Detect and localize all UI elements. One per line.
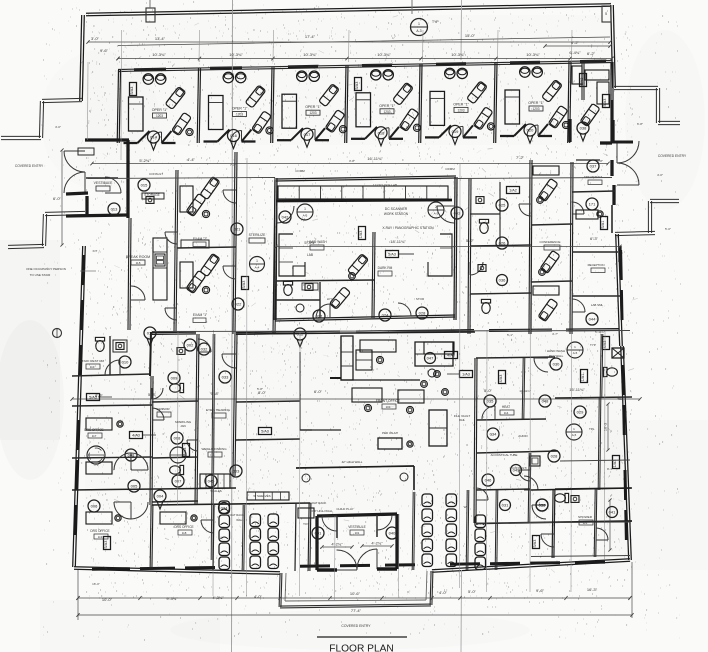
box tag 1/A1 fo xyxy=(581,370,588,383)
front office counters xyxy=(300,352,312,430)
box tag 5/A3 op4 xyxy=(355,78,362,91)
room tag 018 xyxy=(375,127,387,146)
east entry doors xyxy=(617,141,639,163)
operatory partition wall 2 xyxy=(197,69,198,144)
core h wall xyxy=(276,280,374,281)
room tag 042 xyxy=(279,211,291,223)
east wing small fixtures xyxy=(476,197,484,204)
east canopy lower step h2 xyxy=(615,235,655,236)
big door arcs sw2 xyxy=(131,502,148,519)
big door arcs sw xyxy=(114,453,131,470)
room tag 035 xyxy=(484,395,496,407)
west wing wall v1 xyxy=(128,218,129,330)
se sink xyxy=(571,496,579,503)
east heavy segs xyxy=(610,160,613,176)
east wing cab xyxy=(533,166,559,175)
room tag 009 xyxy=(168,372,180,384)
corridor wall s2 xyxy=(195,334,197,505)
biz mid room walls xyxy=(476,489,530,490)
bottom dim string xyxy=(78,597,630,599)
core east wall xyxy=(454,177,455,320)
east wing extra wall xyxy=(470,293,531,294)
se toilet xyxy=(555,493,569,502)
core center chair xyxy=(347,254,368,277)
room tag 029 xyxy=(574,406,586,418)
staff RR door xyxy=(105,360,120,375)
room tag 028c xyxy=(416,307,428,319)
room tag 014 xyxy=(148,131,160,150)
front office L counter xyxy=(415,342,453,366)
bottom overall dim xyxy=(78,614,632,616)
sw offices wall3 xyxy=(152,503,310,505)
break room door xyxy=(131,286,145,300)
break room sink xyxy=(155,254,165,266)
room tag 034 xyxy=(487,428,499,440)
operatory partition wall 1 xyxy=(117,70,118,143)
room tag 031 xyxy=(500,500,511,511)
box tag 4/A3 ne2 xyxy=(603,337,610,350)
operatory room 020 furniture xyxy=(500,67,570,136)
south wing north wall segs xyxy=(152,333,196,336)
sw offices north wall xyxy=(72,405,152,406)
east wing chairs c xyxy=(538,298,558,321)
scales shelves xyxy=(200,474,230,488)
room tag 004 xyxy=(154,490,166,502)
east wing wall v1 xyxy=(468,178,469,334)
room tag 016 xyxy=(228,130,240,149)
room 015 fixtures xyxy=(78,148,94,155)
scan blotches xyxy=(0,320,64,480)
room 015 sink xyxy=(146,197,154,204)
east wing chairs b xyxy=(540,250,560,273)
bottom dim ticks xyxy=(76,596,79,600)
east exterior wall lower xyxy=(621,346,629,560)
room tag 048 xyxy=(539,395,551,407)
core wc wall xyxy=(276,299,320,301)
room tag 030 xyxy=(550,358,562,370)
south exterior wall east run xyxy=(432,561,630,572)
title rule xyxy=(317,636,407,638)
room tag 008 xyxy=(125,449,137,461)
room tag 024 xyxy=(379,309,391,321)
west vestibule mid wall xyxy=(86,177,118,179)
room tag 005 xyxy=(128,480,140,492)
se dim col xyxy=(609,500,611,550)
biz door arcs xyxy=(534,358,548,372)
south window sills xyxy=(92,567,130,571)
top tick small xyxy=(411,0,413,14)
front office tag xyxy=(425,353,436,364)
se room dims xyxy=(607,404,609,450)
north exterior wall xyxy=(86,6,611,16)
east mid room fill xyxy=(576,210,598,219)
operatory partition wall 6 xyxy=(494,63,495,143)
room tag 010 xyxy=(119,356,131,368)
room tag 037 xyxy=(587,160,599,172)
core door west xyxy=(277,206,294,223)
west canopy lower step h2 xyxy=(8,248,44,249)
room 038 cabinets xyxy=(585,70,609,80)
room tag 003 xyxy=(230,465,242,477)
top dim string 2 xyxy=(118,58,612,60)
biz extra arcs xyxy=(476,488,488,500)
box tag 5/A3 core xyxy=(386,251,399,258)
room tag 028 xyxy=(548,450,560,462)
core door east xyxy=(437,206,454,223)
front desk rail xyxy=(330,377,341,379)
toy box xyxy=(298,508,314,518)
sw offices mid wall xyxy=(72,457,152,458)
waiting west wall xyxy=(242,505,243,570)
scan crease left xyxy=(232,0,233,652)
box tag 1/A3 se xyxy=(613,456,620,469)
room tag 026 xyxy=(496,237,508,249)
south porch inner lines xyxy=(285,573,286,601)
room tag 049 xyxy=(511,465,522,476)
left small dims xyxy=(61,150,63,245)
room tag 011 xyxy=(144,327,156,339)
marker circle a5 r1 xyxy=(567,342,583,358)
box tag 5/A1 e xyxy=(601,217,608,230)
core lower chair xyxy=(329,287,350,310)
marker circle corridor xyxy=(250,257,265,272)
fan circle 2 xyxy=(170,447,186,463)
box tag 1/A3 fo xyxy=(460,371,473,378)
room tag 043 xyxy=(451,207,463,219)
exam 021 chair xyxy=(186,193,206,216)
corridor wall s4 xyxy=(233,334,235,476)
west canopy upper step h xyxy=(42,102,82,103)
east canopy upper step h2 xyxy=(658,124,680,126)
core north wall xyxy=(276,178,456,181)
top dim ticks 2 xyxy=(116,57,119,61)
operatory partition wall 3 xyxy=(271,67,272,143)
west canopy upper step v xyxy=(39,101,40,138)
sw desk fill xyxy=(86,418,112,430)
biz office walls xyxy=(474,358,475,523)
room tag 046 xyxy=(482,474,494,486)
sw offices wall2 xyxy=(72,488,236,490)
operatory east closure wall xyxy=(610,62,612,143)
se tag 041 xyxy=(607,507,618,518)
north wall face xyxy=(118,63,612,72)
room tag 021 xyxy=(231,223,243,235)
witness lines vertical xyxy=(120,30,123,160)
east exterior wall upper xyxy=(611,5,613,88)
se wall v2 xyxy=(594,489,595,557)
top small tag right xyxy=(602,6,611,22)
corridor wall west xyxy=(233,152,235,334)
north window sills xyxy=(134,68,166,72)
west exterior wall upper xyxy=(80,15,82,101)
scan crease right xyxy=(460,0,463,60)
bottom left vert ext xyxy=(77,570,79,620)
east entry jambs xyxy=(611,120,614,141)
vestibule east wall xyxy=(395,514,398,569)
box tag 4/A3 fo2 xyxy=(445,352,458,359)
vestibule double doors xyxy=(337,550,357,570)
south porch east wall xyxy=(430,571,431,605)
box tag 5/A3 op1 xyxy=(130,83,137,96)
sw wall v bottom2 xyxy=(213,505,214,570)
eye hearing walls xyxy=(236,401,300,402)
se tag 039 xyxy=(536,499,548,511)
east wing chairs a xyxy=(538,178,558,201)
scan tone xyxy=(0,240,60,440)
right C counter xyxy=(428,234,452,276)
twelve oclock counter xyxy=(278,186,448,199)
east rooms mid walls xyxy=(572,251,618,253)
small wc a xyxy=(170,383,184,392)
sw desk fill2 xyxy=(86,512,112,524)
room tag 020 xyxy=(524,124,536,143)
east wall step box xyxy=(612,348,624,358)
se x-ray walls xyxy=(555,397,632,398)
room tag 008b xyxy=(171,432,183,444)
operatory partition wall 5 xyxy=(419,64,420,143)
operatory room 018 furniture xyxy=(351,70,421,139)
core south wall xyxy=(275,317,455,321)
ne room fixtures2 xyxy=(580,103,600,126)
room tag 044 xyxy=(586,313,598,325)
east room doors xyxy=(572,202,584,214)
box tag 5/A3 op6 xyxy=(580,74,587,87)
top small tag left xyxy=(146,8,155,22)
vestibule inner door xyxy=(105,177,121,193)
staff RR walls xyxy=(72,374,151,376)
west canopy lower step v xyxy=(42,214,43,246)
room tag 025 xyxy=(496,199,508,211)
core west wall xyxy=(274,180,275,320)
east wing wall v2 xyxy=(529,160,530,334)
room tag 171 xyxy=(586,198,598,210)
box tag 5/A3 sw xyxy=(87,394,100,401)
west vestibule south wall xyxy=(66,215,128,216)
interior dim string 2 xyxy=(276,246,620,248)
box tag 5/A3 west corr xyxy=(242,277,249,290)
box tag 5/A3 sw2 xyxy=(259,428,272,435)
east exterior wall mid xyxy=(616,234,620,346)
box tag 1/A2 xyxy=(507,187,520,194)
box tag 4/A3 sw xyxy=(130,432,143,439)
waiting plant xyxy=(302,474,310,482)
se boxtag xyxy=(533,536,540,549)
west window sills xyxy=(81,255,85,285)
room tag 045 xyxy=(205,475,217,487)
box tag 5/A3 sw3 xyxy=(104,537,111,550)
exam 022 chair2 xyxy=(200,253,220,276)
small wc b xyxy=(170,465,184,474)
front office chairs xyxy=(365,405,372,412)
south exterior wall west run xyxy=(74,569,280,574)
vestibule funnels xyxy=(336,516,338,538)
waiting chairs east xyxy=(422,494,433,507)
witness lines horizontal xyxy=(152,331,630,332)
operatory room 019 furniture xyxy=(425,68,495,137)
front office desks xyxy=(352,388,382,402)
marker circle a5 r2 xyxy=(566,424,582,440)
corridor wall west2 xyxy=(273,178,275,334)
vestibule door arcs in xyxy=(322,516,337,531)
se door arc xyxy=(541,534,554,547)
operatory room 017 furniture xyxy=(277,71,347,140)
room 013 tag xyxy=(108,203,120,215)
sw office door xyxy=(201,520,214,533)
east canopy lower step h xyxy=(650,202,679,204)
left C counter xyxy=(279,234,305,276)
top dim string 1 xyxy=(88,41,610,43)
room 038 tag xyxy=(577,122,589,134)
waiting chairs west xyxy=(219,501,230,514)
room tag 032 xyxy=(198,343,210,355)
vestibule dims xyxy=(322,546,352,548)
box tag 1/A3 core xyxy=(359,227,366,240)
west wing wall v2 xyxy=(174,170,176,332)
west extra arcs xyxy=(165,232,177,244)
corridor wall s3 xyxy=(211,334,213,560)
room tag 033 xyxy=(219,371,231,383)
waiting north low wall xyxy=(296,466,414,468)
small door arcs sw xyxy=(152,408,164,420)
room 038 walls xyxy=(568,119,571,142)
west corridor doors xyxy=(223,190,236,203)
left wall circle marker xyxy=(53,329,62,338)
east corridor wall xyxy=(570,162,571,334)
room tag 012 xyxy=(294,328,306,340)
marker circle core e xyxy=(428,202,444,218)
box tag 4/A3 fo xyxy=(499,371,506,384)
exam 021 chair2 xyxy=(200,176,220,199)
east canopy lower step v xyxy=(647,201,649,233)
room tag 007 xyxy=(172,475,184,487)
front office north wall xyxy=(236,332,475,334)
room tag 017 xyxy=(301,128,313,147)
operatory room 014 furniture xyxy=(124,74,194,143)
front office stools2 xyxy=(421,381,428,388)
room tag 006 xyxy=(88,500,100,512)
marker circle core w xyxy=(297,204,313,220)
ped vault box xyxy=(378,438,402,449)
core mid partition xyxy=(372,232,373,318)
operatory room 016 furniture xyxy=(204,72,274,141)
vestibule door jambs xyxy=(317,568,337,572)
east window sills xyxy=(619,250,623,280)
room tag 040 xyxy=(386,527,398,539)
se wall h1 xyxy=(531,488,632,490)
se wall v1 xyxy=(552,489,553,558)
west south corridor walls xyxy=(150,376,151,505)
north corridor dim line xyxy=(92,163,608,165)
front office desk v xyxy=(429,410,447,446)
vestibule west wall xyxy=(315,516,318,570)
hall closet xyxy=(356,350,372,370)
interior dim string xyxy=(72,398,640,400)
room tag 001 xyxy=(312,527,324,539)
front office counter band xyxy=(341,336,353,380)
room tag 002 xyxy=(184,339,196,351)
vestibule north wall xyxy=(317,514,397,516)
operatory partition wall 7 xyxy=(568,62,569,143)
exam 022 chair xyxy=(186,270,206,293)
room tag 022 xyxy=(232,298,244,310)
northeast heavy wall xyxy=(600,141,612,144)
west exterior wall lower xyxy=(73,246,83,567)
room tag 038b xyxy=(536,499,548,511)
biz inner wall xyxy=(522,358,523,419)
operatory partition wall 4 xyxy=(345,66,346,143)
door arc eye xyxy=(222,354,236,368)
west vestibule east wall xyxy=(126,140,129,218)
staff RR fixtures xyxy=(95,337,104,351)
box tag 5/A3 ne xyxy=(603,95,610,108)
east wing mid walls xyxy=(470,245,531,246)
room tag 036 xyxy=(497,275,508,286)
room tag 027 xyxy=(313,310,325,322)
west vestibule north wall xyxy=(85,138,129,141)
west entry heavy jambs xyxy=(66,193,88,194)
east canopy upper step h xyxy=(614,89,658,91)
west entry doors xyxy=(64,151,85,172)
core wc toilet xyxy=(283,281,292,295)
west canopy lower step h xyxy=(45,215,85,216)
biz south wall xyxy=(476,521,632,524)
east canopy upper step v xyxy=(655,88,657,123)
box tag 5/A3 sw4 xyxy=(183,444,190,457)
room tag 019 xyxy=(449,125,461,144)
marker balloon top xyxy=(411,19,428,36)
sw wall v bottom xyxy=(150,505,151,570)
room 015 tag xyxy=(138,179,150,191)
waiting east wall xyxy=(412,492,413,570)
south porch south wall xyxy=(280,606,431,608)
ceiling fan 1 xyxy=(87,446,105,464)
break room counter xyxy=(153,238,167,300)
south porch west wall xyxy=(279,573,280,607)
exam room mid wall xyxy=(177,247,236,248)
core south doors xyxy=(316,304,330,318)
east wing door arcs xyxy=(470,262,483,275)
west canopy upper step h2 xyxy=(1,139,41,141)
